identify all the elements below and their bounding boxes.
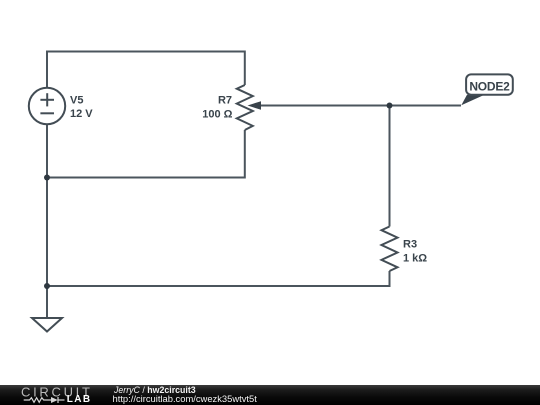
logo diode xyxy=(51,397,58,403)
svg-text:V5: V5 xyxy=(70,94,83,106)
wire wiper: R7 wiper to NODE2 xyxy=(258,105,461,107)
label V5 value xyxy=(70,94,93,120)
resistor R3 xyxy=(382,227,398,272)
node A junction dot xyxy=(44,175,50,181)
footer bar xyxy=(0,385,540,405)
svg-text:R3: R3 xyxy=(403,239,417,251)
svg-text:1 kΩ: 1 kΩ xyxy=(403,252,427,264)
wire bottom loop1: R7 bottom to node A xyxy=(47,130,245,178)
node NODE2 flag xyxy=(461,74,513,105)
label R3 value xyxy=(403,239,427,265)
wire bottom: R3 bottom to node C xyxy=(47,271,390,286)
potentiometer R7 xyxy=(237,85,253,130)
label R7 value xyxy=(202,95,232,121)
svg-text:R7: R7 xyxy=(218,95,232,107)
logo squiggle wire xyxy=(24,397,65,403)
node C junction dot xyxy=(44,283,50,289)
svg-text:LAB: LAB xyxy=(67,394,92,405)
svg-text:100 Ω: 100 Ω xyxy=(202,109,232,121)
ground xyxy=(32,318,62,332)
wire top: V5 top to R7 top xyxy=(47,52,245,89)
voltage source V5 xyxy=(29,88,65,124)
node B junction dot xyxy=(387,103,393,109)
svg-text:NODE2: NODE2 xyxy=(469,80,510,94)
svg-text:http://circuitlab.com/cwezk35w: http://circuitlab.com/cwezk35wtvt5t xyxy=(113,393,258,404)
wiper arrow of R7 xyxy=(248,101,262,110)
wire: node B down to R3 top xyxy=(389,106,391,227)
wire left: V5 bottom down to ground xyxy=(46,124,48,318)
svg-text:12 V: 12 V xyxy=(70,108,93,120)
